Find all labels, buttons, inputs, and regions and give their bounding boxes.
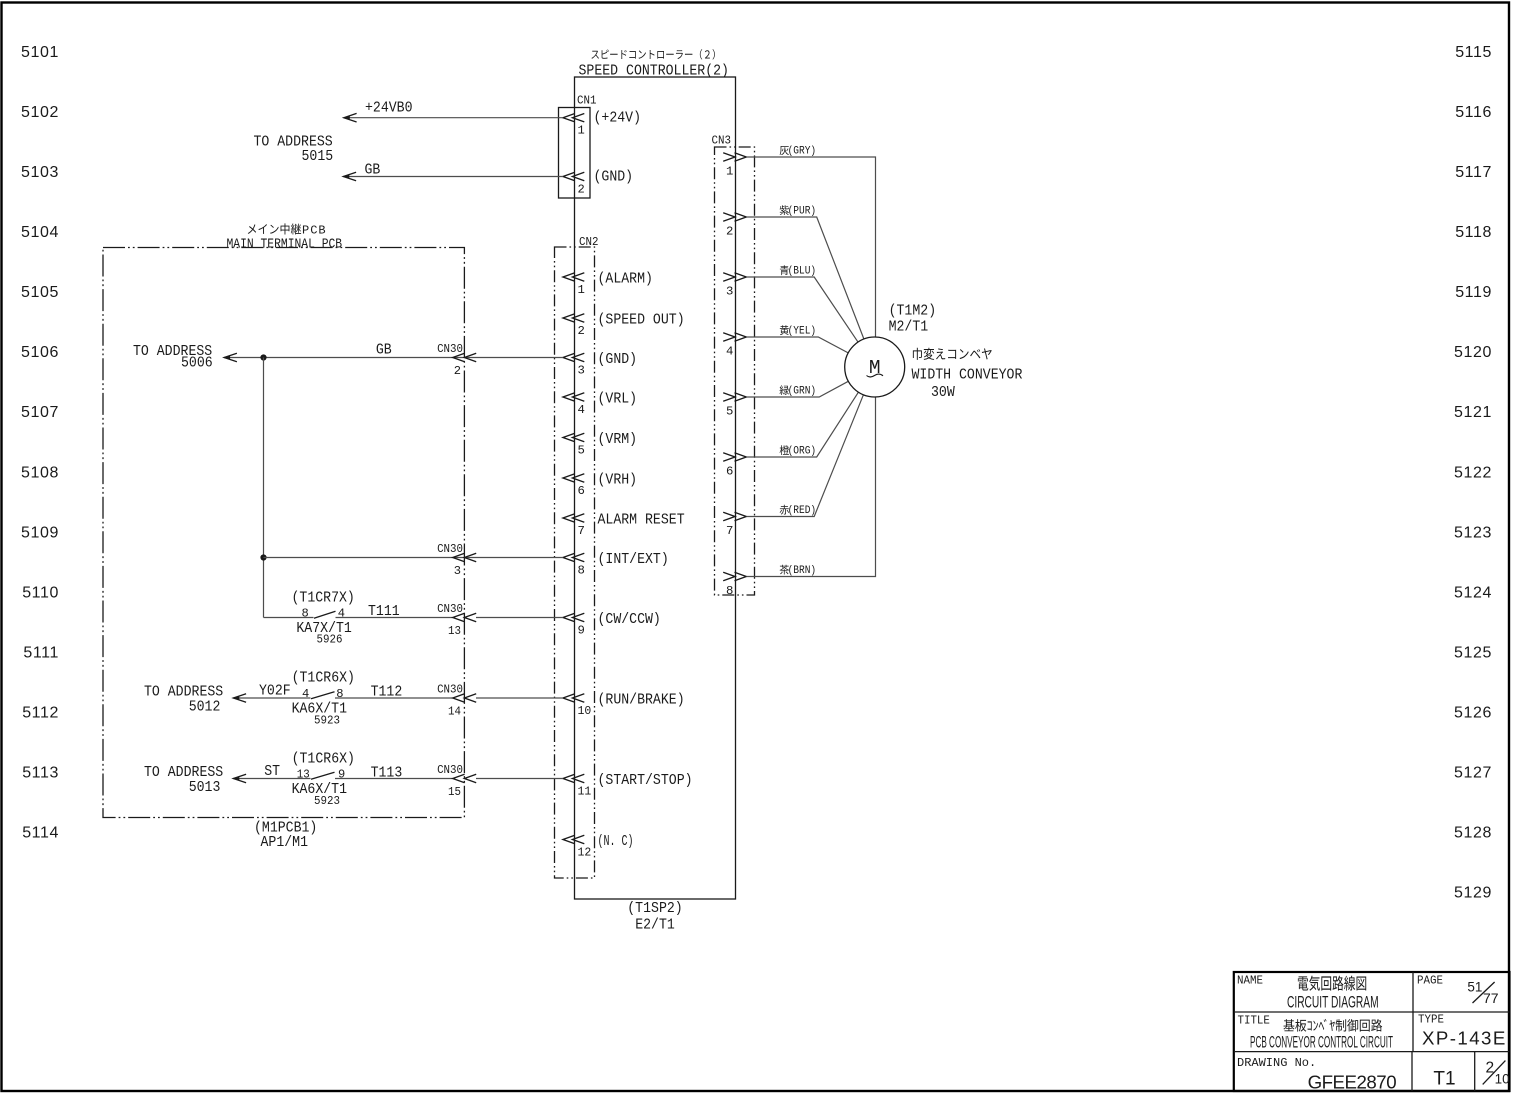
svg-text:Y02F: Y02F bbox=[259, 683, 291, 699]
svg-text:(RUN/BRAKE): (RUN/BRAKE) bbox=[598, 692, 685, 708]
svg-text:(ORG): (ORG) bbox=[788, 446, 817, 458]
motor M (T1M2) M2/T1 width conveyor 30W bbox=[845, 304, 1023, 401]
svg-text:11: 11 bbox=[578, 785, 592, 799]
svg-text:4: 4 bbox=[338, 607, 345, 621]
svg-text:(N. C): (N. C) bbox=[598, 834, 634, 850]
svg-text:(INT/EXT): (INT/EXT) bbox=[598, 552, 669, 568]
svg-text:5125: 5125 bbox=[1454, 644, 1492, 661]
svg-text:ALARM RESET: ALARM RESET bbox=[598, 512, 685, 528]
svg-text:(VRM): (VRM) bbox=[598, 432, 638, 448]
svg-text:6: 6 bbox=[726, 464, 733, 478]
svg-text:5110: 5110 bbox=[22, 584, 59, 601]
wire GB to address 5015 bbox=[343, 163, 563, 181]
wire CN3-8 BRN to motor bbox=[747, 397, 876, 577]
connector CN2 box bbox=[555, 235, 599, 878]
svg-text:7: 7 bbox=[578, 524, 585, 538]
title block frame bbox=[1234, 972, 1510, 1091]
svg-text:5105: 5105 bbox=[21, 284, 59, 301]
svg-text:5118: 5118 bbox=[1455, 224, 1492, 241]
speed controller ref label (T1SP2) E2/T1 bbox=[627, 901, 682, 934]
svg-text:30W: 30W bbox=[931, 385, 955, 401]
svg-text:4: 4 bbox=[302, 687, 309, 701]
connector CN3 pin 8 wire (BRN) bbox=[723, 565, 816, 598]
svg-text:3: 3 bbox=[454, 564, 461, 578]
title block sheet 2/10 bbox=[1483, 1060, 1510, 1087]
svg-text:14: 14 bbox=[448, 705, 461, 719]
svg-text:(RED): (RED) bbox=[788, 505, 817, 517]
wire CW/CCW bbox=[476, 617, 563, 619]
svg-text:(PUR): (PUR) bbox=[788, 206, 817, 218]
svg-text:T113: T113 bbox=[371, 766, 403, 782]
svg-text:5113: 5113 bbox=[22, 765, 59, 782]
svg-text:10: 10 bbox=[578, 704, 592, 718]
svg-text:4: 4 bbox=[726, 344, 733, 358]
connector CN2 pin 4 (VRL) bbox=[563, 391, 637, 417]
svg-text:5923: 5923 bbox=[314, 794, 340, 808]
svg-text:5: 5 bbox=[578, 444, 585, 458]
svg-text:1: 1 bbox=[578, 124, 585, 138]
node junction on GB wire bbox=[260, 354, 266, 360]
title block TYPE: XP-143E bbox=[1418, 1013, 1505, 1049]
wire vertical bus from GB junction bbox=[263, 358, 265, 618]
speed controller SP2 title bbox=[579, 49, 729, 79]
svg-text:5116: 5116 bbox=[1455, 104, 1492, 121]
svg-text:5102: 5102 bbox=[21, 104, 59, 121]
grid line numbers 5115-5129 (right column) bbox=[1454, 44, 1492, 902]
svg-text:8: 8 bbox=[726, 584, 733, 598]
connector CN30 pin 13 bbox=[437, 602, 476, 638]
connector CN1 pin 2 (GND) bbox=[563, 170, 633, 197]
wire RUN/BRAKE bbox=[476, 697, 563, 699]
wire CN3-6 (ORG) to motor bbox=[747, 392, 859, 457]
svg-text:10: 10 bbox=[1495, 1072, 1510, 1087]
svg-text:CN30: CN30 bbox=[437, 683, 463, 697]
svg-text:CN30: CN30 bbox=[437, 602, 463, 616]
svg-text:T112: T112 bbox=[371, 685, 403, 701]
svg-text:CN30: CN30 bbox=[437, 542, 463, 556]
relay contact T111 (T1CR7X) KA7X/T1 bbox=[264, 591, 453, 647]
connector CN2 pin 2 (SPEED OUT) bbox=[563, 312, 685, 338]
svg-text:2: 2 bbox=[578, 182, 585, 196]
wire ST to address 5013 bbox=[233, 764, 310, 783]
svg-text:(VRH): (VRH) bbox=[598, 472, 638, 488]
svg-text:CN30: CN30 bbox=[437, 342, 463, 356]
svg-text:5107: 5107 bbox=[21, 404, 59, 421]
svg-text:9: 9 bbox=[578, 624, 585, 638]
net label TO ADDRESS 5006 bbox=[133, 344, 213, 372]
svg-text:(T1CR6X): (T1CR6X) bbox=[292, 671, 355, 687]
svg-text:(SPEED OUT): (SPEED OUT) bbox=[598, 312, 685, 328]
connector CN2 pin 7 ALARM RESET bbox=[563, 512, 685, 538]
connector CN3 pin 1 wire (GRY) bbox=[723, 146, 816, 179]
wire GB from CN2 pin3 to address 5006 bbox=[224, 343, 563, 362]
svg-text:WIDTH CONVEYOR: WIDTH CONVEYOR bbox=[912, 367, 1023, 383]
net label TO ADDRESS 5015 bbox=[254, 135, 334, 165]
net label TO ADDRESS 5013 bbox=[144, 765, 223, 796]
svg-text:5: 5 bbox=[726, 404, 733, 418]
svg-text:(T1SP2): (T1SP2) bbox=[627, 901, 682, 917]
svg-text:2: 2 bbox=[726, 224, 733, 238]
connector CN3 pin 7 wire (RED) bbox=[723, 505, 816, 538]
svg-text:(GRY): (GRY) bbox=[788, 146, 817, 158]
svg-text:(T1CR7X): (T1CR7X) bbox=[292, 591, 355, 607]
svg-text:1: 1 bbox=[578, 283, 585, 297]
connector CN2 pin 12 (N. C) bbox=[563, 834, 634, 860]
svg-text:T1: T1 bbox=[1433, 1068, 1455, 1089]
connector CN2 pin 5 (VRM) bbox=[563, 432, 637, 458]
svg-text:(T1CR6X): (T1CR6X) bbox=[292, 752, 355, 768]
svg-text:CIRCUIT DIAGRAM: CIRCUIT DIAGRAM bbox=[1287, 994, 1379, 1012]
wire +24VB0 to address 5015 bbox=[344, 101, 563, 123]
svg-text:5123: 5123 bbox=[1454, 524, 1492, 541]
svg-text:CN1: CN1 bbox=[577, 94, 596, 108]
svg-text:9: 9 bbox=[338, 768, 345, 782]
svg-text:ST: ST bbox=[264, 764, 280, 780]
connector CN2 pin 9 (CW/CCW) bbox=[563, 612, 661, 638]
svg-text:5129: 5129 bbox=[1454, 885, 1492, 902]
connector CN3 pin 5 wire (GRN) bbox=[723, 385, 816, 418]
title block NAME: circuit diagram bbox=[1237, 974, 1379, 1012]
svg-text:12: 12 bbox=[578, 846, 592, 860]
svg-text:8: 8 bbox=[302, 607, 309, 621]
svg-text:5120: 5120 bbox=[1454, 344, 1492, 361]
svg-text:15: 15 bbox=[448, 785, 461, 799]
svg-text:5128: 5128 bbox=[1454, 825, 1492, 842]
connector CN3 pin 3 wire (BLU) bbox=[723, 265, 816, 298]
connector CN2 pin 1 (ALARM) bbox=[563, 271, 653, 297]
svg-text:DRAWING No.: DRAWING No. bbox=[1237, 1056, 1316, 1070]
svg-text:TITLE: TITLE bbox=[1238, 1014, 1270, 1028]
svg-text:5109: 5109 bbox=[21, 524, 59, 541]
svg-text:1: 1 bbox=[726, 164, 733, 178]
svg-text:2: 2 bbox=[578, 324, 585, 338]
svg-text:PAGE: PAGE bbox=[1417, 974, 1443, 988]
svg-text:3: 3 bbox=[726, 284, 733, 298]
speed controller SP2 box (E2/T1) bbox=[575, 77, 736, 899]
connector CN30 pin 2 bbox=[437, 342, 476, 378]
svg-text:5112: 5112 bbox=[22, 704, 59, 721]
connector CN1 box bbox=[559, 94, 597, 199]
svg-text:8: 8 bbox=[578, 564, 585, 578]
svg-text:NAME: NAME bbox=[1237, 974, 1263, 988]
svg-text:5012: 5012 bbox=[189, 700, 221, 716]
svg-text:CN2: CN2 bbox=[579, 235, 598, 249]
wire INT/EXT bbox=[264, 557, 564, 559]
svg-text:AP1/M1: AP1/M1 bbox=[261, 835, 309, 851]
svg-text:CN30: CN30 bbox=[437, 763, 463, 777]
svg-text:(BLU): (BLU) bbox=[788, 266, 817, 278]
svg-text:5122: 5122 bbox=[1454, 464, 1492, 481]
svg-text:5015: 5015 bbox=[302, 149, 334, 165]
svg-text:51: 51 bbox=[1467, 980, 1482, 995]
svg-text:3: 3 bbox=[578, 364, 585, 378]
svg-text:(VRL): (VRL) bbox=[598, 391, 638, 407]
relay contact T112 (T1CR6X) KA6X/T1 bbox=[292, 671, 453, 728]
svg-text:T111: T111 bbox=[368, 604, 400, 620]
connector CN1 pin 1 (+24V) bbox=[563, 111, 641, 138]
svg-text:M2/T1: M2/T1 bbox=[889, 320, 929, 336]
svg-text:5101: 5101 bbox=[21, 44, 59, 61]
svg-text:7: 7 bbox=[726, 524, 733, 538]
svg-text:5117: 5117 bbox=[1455, 164, 1492, 181]
svg-text:2: 2 bbox=[454, 364, 461, 378]
svg-text:13: 13 bbox=[448, 624, 461, 638]
svg-text:8: 8 bbox=[336, 687, 343, 701]
svg-text:5013: 5013 bbox=[189, 780, 221, 796]
svg-text:4: 4 bbox=[578, 403, 585, 417]
svg-text:6: 6 bbox=[578, 484, 585, 498]
svg-text:TO ADDRESS: TO ADDRESS bbox=[144, 684, 223, 700]
svg-text:(START/STOP): (START/STOP) bbox=[598, 773, 693, 789]
svg-text:(GRN): (GRN) bbox=[788, 386, 817, 398]
svg-text:5106: 5106 bbox=[21, 344, 59, 361]
svg-text:5119: 5119 bbox=[1455, 284, 1492, 301]
net label TO ADDRESS 5012 bbox=[144, 684, 223, 715]
wire CN3-3 (BLU) to motor bbox=[747, 277, 859, 342]
wire Y02F to address 5012 bbox=[233, 683, 310, 702]
title block DRAWING No.: GFEE2870 bbox=[1237, 1056, 1397, 1092]
svg-text:5115: 5115 bbox=[1455, 44, 1492, 61]
svg-text:GB: GB bbox=[365, 163, 381, 179]
svg-text:5006: 5006 bbox=[181, 356, 213, 372]
svg-text:13: 13 bbox=[297, 768, 310, 782]
svg-text:5121: 5121 bbox=[1454, 404, 1492, 421]
wire START/STOP bbox=[476, 778, 563, 780]
svg-text:5108: 5108 bbox=[21, 464, 59, 481]
relay contact T113 (T1CR6X) KA6X/T1 bbox=[292, 752, 453, 808]
svg-text:5124: 5124 bbox=[1454, 584, 1492, 601]
grid line numbers 5101-5114 (left column) bbox=[21, 44, 59, 842]
svg-text:5926: 5926 bbox=[317, 633, 343, 647]
connector CN2 pin 11 (START/STOP) bbox=[563, 773, 693, 799]
svg-text:(CW/CCW): (CW/CCW) bbox=[598, 612, 661, 628]
connector CN3 pin 6 wire (ORG) bbox=[723, 445, 816, 478]
connector CN30 pin 3 bbox=[437, 542, 476, 578]
svg-text:(YEL): (YEL) bbox=[788, 326, 817, 338]
svg-text:5127: 5127 bbox=[1454, 765, 1492, 782]
svg-text:(GND): (GND) bbox=[598, 352, 638, 368]
connector CN30 pin 14 bbox=[437, 683, 476, 719]
wire CN3-1 GRY to motor bbox=[747, 157, 876, 337]
svg-text:E2/T1: E2/T1 bbox=[635, 918, 675, 934]
svg-text:5923: 5923 bbox=[314, 714, 340, 728]
connector CN30 pin 15 bbox=[437, 763, 476, 799]
svg-text:TYPE: TYPE bbox=[1418, 1013, 1444, 1027]
svg-text:GFEE2870: GFEE2870 bbox=[1308, 1071, 1397, 1092]
connector CN2 pin 6 (VRH) bbox=[563, 472, 637, 498]
title block TITLE: PCB conveyor control circuit bbox=[1238, 1014, 1394, 1052]
svg-text:5111: 5111 bbox=[23, 644, 59, 661]
connector CN3 box bbox=[712, 134, 755, 596]
wire CN3-7 (RED) to motor bbox=[747, 395, 864, 517]
svg-text:5103: 5103 bbox=[21, 164, 59, 181]
connector CN3 pin 2 wire (PUR) bbox=[723, 205, 816, 238]
svg-text:CN3: CN3 bbox=[712, 134, 731, 148]
svg-text:TO ADDRESS: TO ADDRESS bbox=[144, 765, 223, 781]
main terminal PCB ref label (M1PCB1) AP1/M1 bbox=[254, 821, 317, 852]
connector CN3 pin 4 wire (YEL) bbox=[723, 325, 816, 358]
connector CN2 pin 3 (GND) bbox=[563, 352, 637, 378]
svg-text:(GND): (GND) bbox=[594, 170, 634, 186]
svg-text:MAIN TERMINAL PCB: MAIN TERMINAL PCB bbox=[227, 236, 343, 252]
wire CN3-4 (YEL) to motor bbox=[747, 337, 849, 353]
wire CN3-2 (PUR) to motor bbox=[747, 217, 864, 339]
svg-text:+24VB0: +24VB0 bbox=[365, 101, 413, 117]
main terminal PCB box (M1PCB1) bbox=[103, 248, 464, 818]
connector CN2 pin 8 (INT/EXT) bbox=[563, 552, 669, 578]
svg-text:5114: 5114 bbox=[22, 825, 59, 842]
svg-text:(ALARM): (ALARM) bbox=[598, 271, 653, 287]
svg-text:5104: 5104 bbox=[21, 224, 59, 241]
node junction on INT/EXT wire bbox=[260, 554, 266, 560]
svg-text:PCB CONVEYOR CONTROL CIRCUIT: PCB CONVEYOR CONTROL CIRCUIT bbox=[1250, 1034, 1393, 1052]
svg-text:5126: 5126 bbox=[1454, 704, 1492, 721]
title block PAGE: 51/77 bbox=[1417, 974, 1499, 1007]
svg-text:77: 77 bbox=[1483, 990, 1499, 1006]
svg-text:GB: GB bbox=[376, 343, 392, 359]
svg-text:(+24V): (+24V) bbox=[594, 111, 642, 127]
svg-text:(BRN): (BRN) bbox=[788, 565, 817, 577]
main terminal PCB title bbox=[227, 223, 343, 252]
connector CN2 pin 10 (RUN/BRAKE) bbox=[563, 692, 685, 718]
wire CN3-5 (GRN) to motor bbox=[747, 381, 849, 397]
svg-text:(T1M2): (T1M2) bbox=[889, 304, 937, 320]
